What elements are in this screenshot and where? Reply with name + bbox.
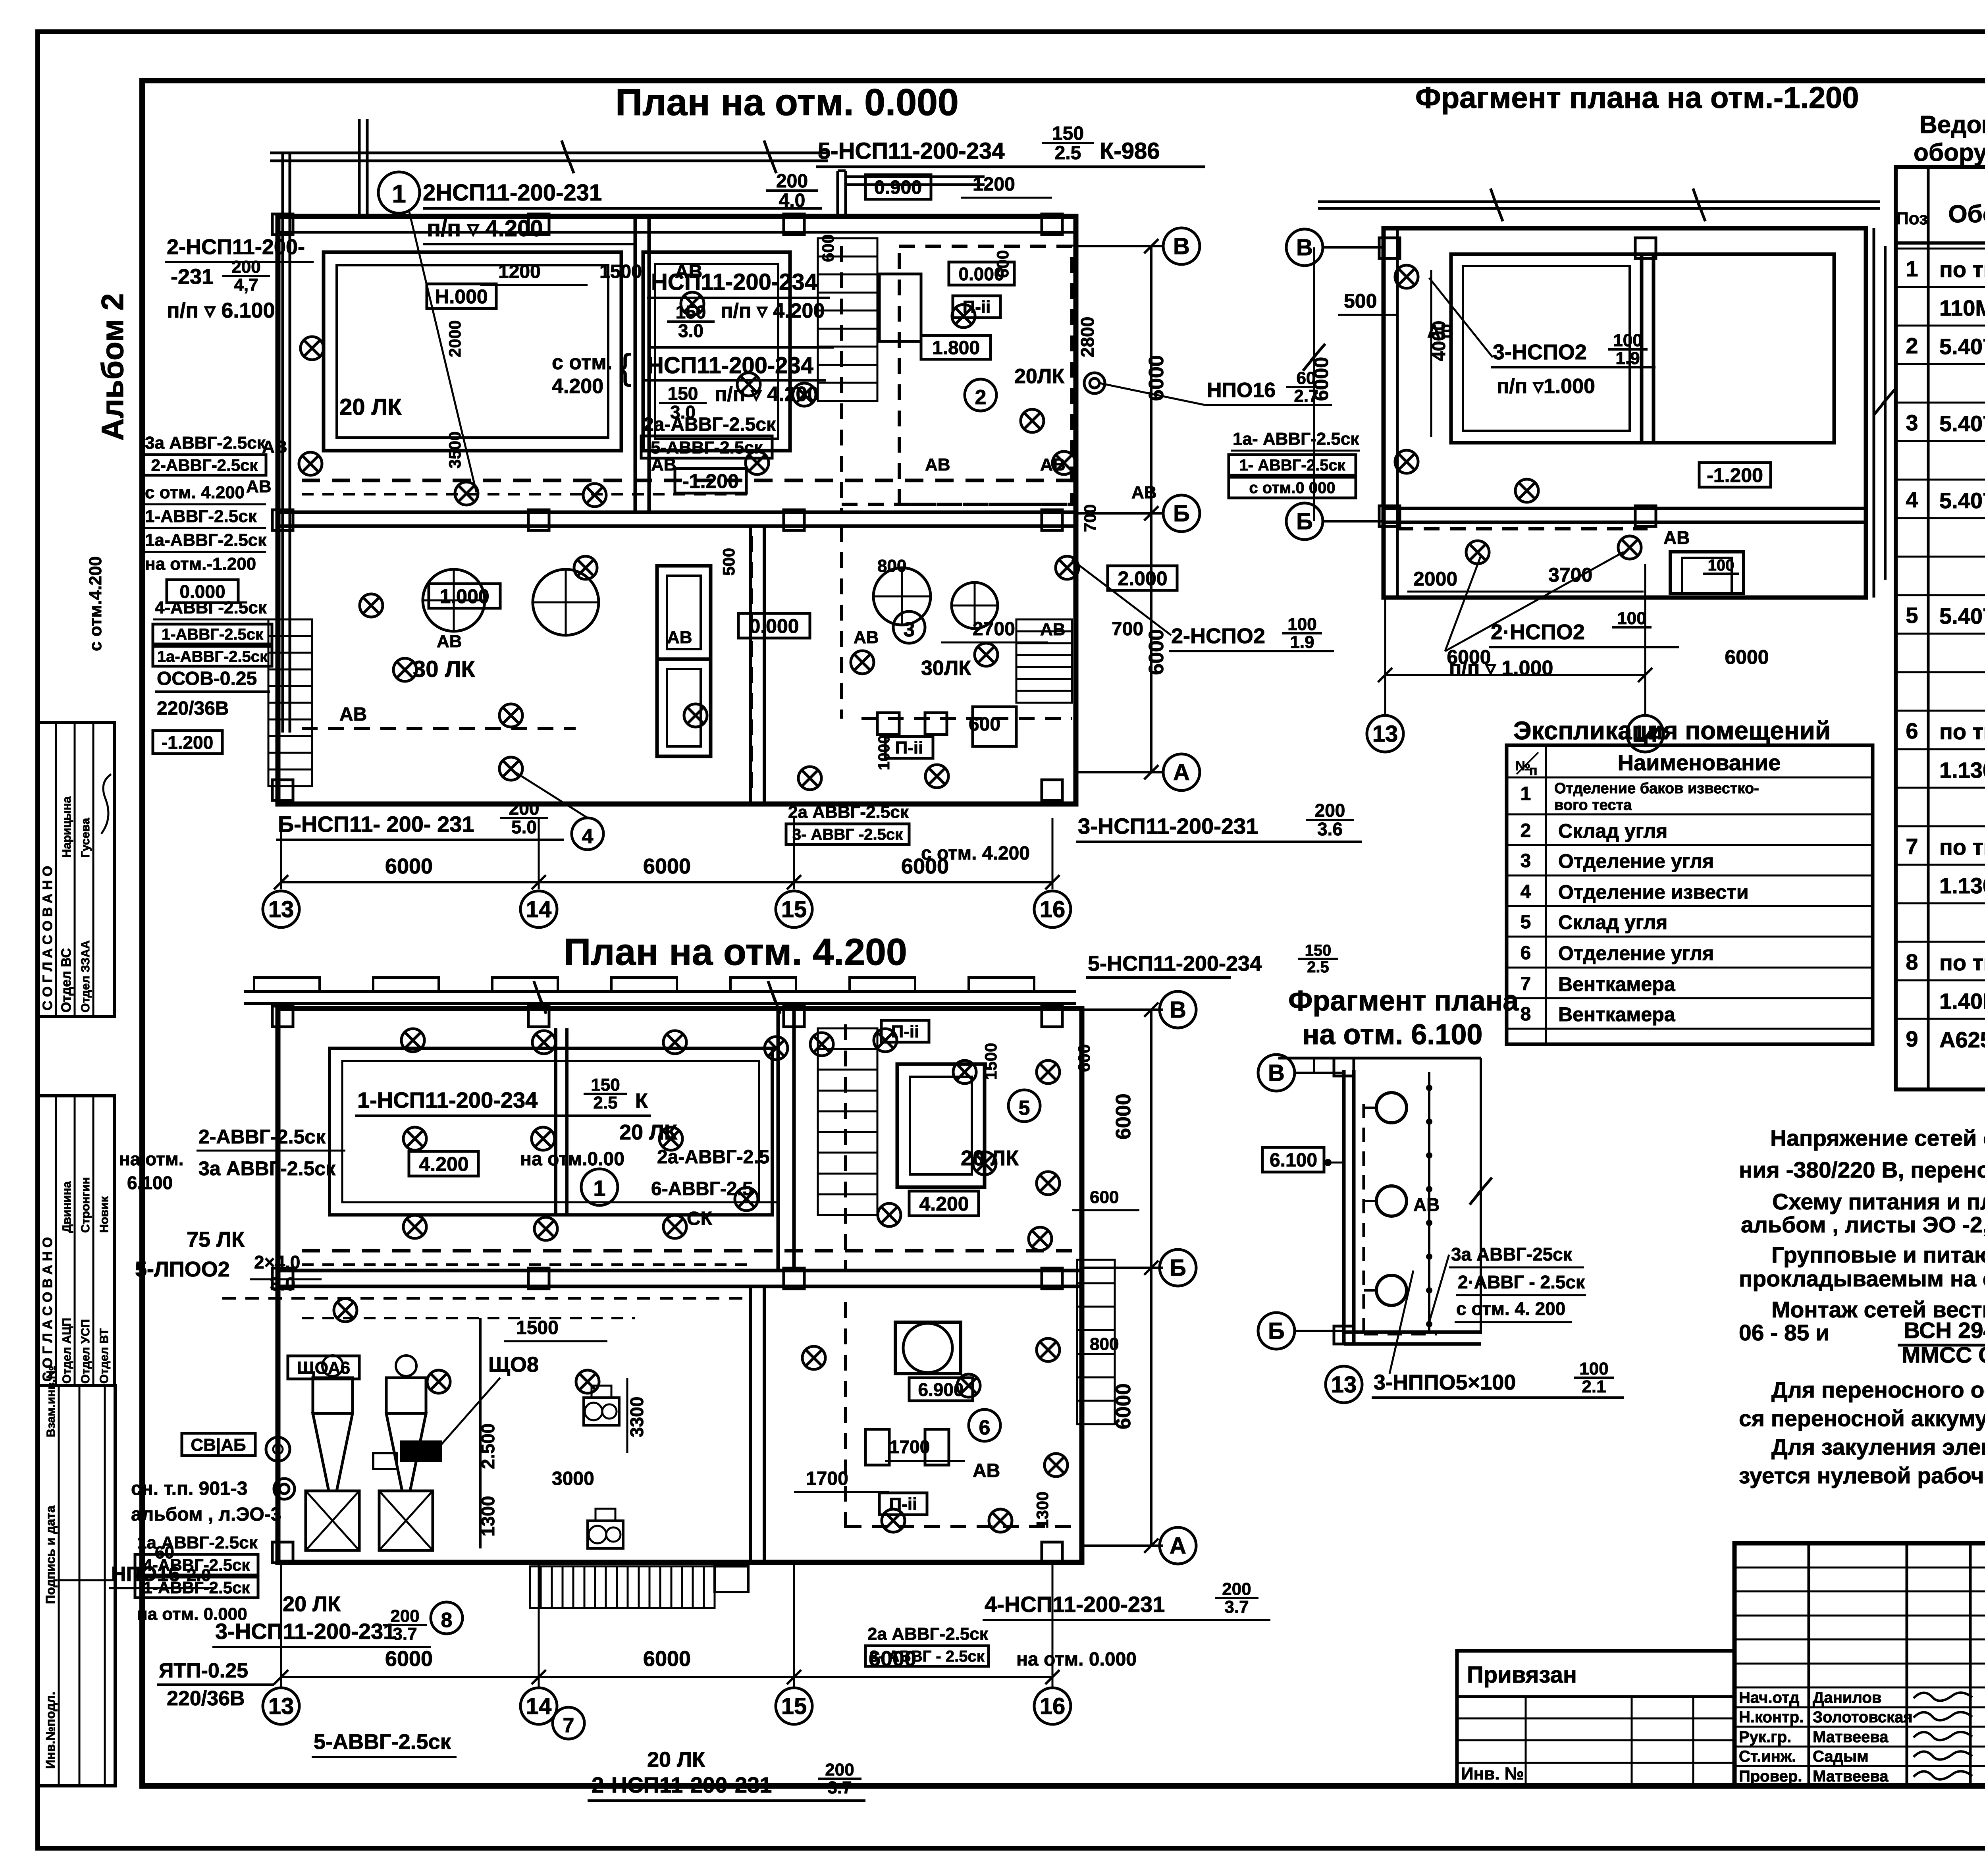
svg-text:6000: 6000 [1145, 629, 1168, 675]
svg-text:6000: 6000 [385, 1647, 433, 1671]
svg-text:2×4.0: 2×4.0 [254, 1252, 300, 1273]
svg-text:АВ: АВ [1040, 455, 1066, 474]
svg-text:200: 200 [1315, 800, 1345, 821]
svg-text:2-НСПО2: 2-НСПО2 [1171, 624, 1265, 648]
svg-text:600: 600 [1090, 1188, 1119, 1207]
svg-text:6000: 6000 [901, 854, 949, 878]
svg-text:-231: -231 [171, 265, 214, 289]
svg-text:Ведомость узлов установки элек: Ведомость узлов установки электрического [1919, 111, 1985, 139]
svg-text:6000: 6000 [1447, 646, 1491, 668]
svg-text:100: 100 [1708, 557, 1734, 574]
svg-text:3-НСП11-200-231: 3-НСП11-200-231 [1078, 814, 1258, 839]
svg-text:13: 13 [268, 1693, 294, 1719]
svg-text:200: 200 [825, 1760, 854, 1780]
svg-text:АВ: АВ [339, 704, 367, 725]
svg-text:на отм.0.00: на отм.0.00 [520, 1149, 624, 1170]
svg-text:5-ЛПОО2: 5-ЛПОО2 [135, 1257, 230, 1281]
svg-text:Обозначение: Обозначение [1948, 201, 1985, 228]
svg-text:5.407-65.60: 5.407-65.60 [1939, 488, 1985, 513]
svg-text:3000: 3000 [552, 1468, 594, 1489]
svg-text:ЩО8: ЩО8 [488, 1353, 539, 1377]
svg-text:1700: 1700 [806, 1468, 848, 1489]
svg-text:1: 1 [392, 179, 406, 208]
svg-text:800: 800 [877, 556, 906, 576]
svg-text:1300: 1300 [1033, 1492, 1052, 1529]
svg-text:с отм.4.200: с отм.4.200 [86, 556, 105, 651]
svg-text:Нарицына: Нарицына [60, 796, 73, 858]
svg-text:п/п ▿ 6.100: п/п ▿ 6.100 [167, 299, 275, 322]
svg-text:Фрагмент плана: Фрагмент плана [1288, 985, 1519, 1017]
svg-text:14: 14 [526, 1693, 552, 1719]
svg-text:В: В [1296, 235, 1313, 260]
svg-text:зуется нулевой рабочий пров: зуется нулевой рабочий провод сети. [1739, 1463, 1985, 1488]
svg-text:альбом , листы ЭО -2: альбом , листы ЭО -2,3 [1741, 1212, 1985, 1238]
svg-text:сн. т.п. 901-3: сн. т.п. 901-3 [131, 1478, 247, 1499]
svg-text:2.5: 2.5 [593, 1093, 617, 1112]
svg-text:1.130МЧ: 1.130МЧ [1939, 873, 1985, 898]
svg-text:на отм. 6.100: на отм. 6.100 [1302, 1019, 1482, 1051]
svg-text:2а АВВГ-2.5ск: 2а АВВГ-2.5ск [788, 802, 909, 822]
svg-text:Отдел ВТ: Отдел ВТ [98, 1328, 111, 1384]
svg-text:1200: 1200 [498, 261, 541, 282]
svg-text:7: 7 [563, 1714, 574, 1737]
svg-text:Отдел АЦП: Отдел АЦП [60, 1318, 73, 1384]
svg-text:5-НСП11-200-234: 5-НСП11-200-234 [818, 138, 1005, 164]
svg-text:3700: 3700 [1548, 564, 1592, 586]
svg-text:6: 6 [979, 1416, 991, 1439]
svg-text:6.100: 6.100 [1270, 1150, 1317, 1171]
svg-text:ся переносной аккумуляторный: ся переносной аккумуляторный светильник. [1739, 1406, 1985, 1431]
svg-text:30 ЛК: 30 ЛК [413, 656, 475, 682]
svg-text:2а-АВВГ-2.5ск: 2а-АВВГ-2.5ск [643, 414, 776, 435]
svg-text:П-іі: П-іі [895, 738, 923, 758]
svg-text:6000: 6000 [643, 1647, 691, 1671]
svg-text:Привязан: Привязан [1467, 1662, 1577, 1688]
svg-text:5.0: 5.0 [511, 817, 537, 837]
svg-text:5: 5 [1019, 1097, 1030, 1120]
svg-text:Схему питания и план питаю: Схему питания и план питающих сетей см.т… [1772, 1189, 1985, 1215]
svg-text:1500: 1500 [516, 1317, 559, 1338]
svg-text:2-АВВГ-2.5ск: 2-АВВГ-2.5ск [198, 1126, 326, 1148]
svg-text:3а АВВГ-25ск: 3а АВВГ-25ск [1451, 1244, 1573, 1265]
svg-text:7: 7 [1521, 974, 1531, 995]
svg-text:5-АВВГ-2.5ск: 5-АВВГ-2.5ск [314, 1730, 451, 1754]
svg-text:С О Г Л А С О В А Н О: С О Г Л А С О В А Н О [40, 1237, 55, 1382]
svg-text:6: 6 [1906, 718, 1918, 743]
svg-text:Для переносного освещения в: Для переносного освещения в отделении уг… [1771, 1377, 1985, 1403]
svg-text:Отдел УСП: Отдел УСП [79, 1319, 92, 1384]
svg-text:30ЛК: 30ЛК [921, 657, 971, 680]
svg-text:150: 150 [676, 302, 706, 322]
svg-text:Провер.: Провер. [1739, 1768, 1802, 1785]
svg-text:0.900: 0.900 [874, 177, 922, 198]
svg-text:2000: 2000 [1413, 568, 1457, 590]
svg-text:на отм. 0.000: на отм. 0.000 [1016, 1649, 1137, 1670]
svg-text:по типу 5.407-64.: по типу 5.407-64. [1939, 257, 1985, 282]
svg-text:5.407-55.1.80: 5.407-55.1.80 [1939, 411, 1985, 436]
svg-text:1: 1 [1906, 256, 1918, 281]
svg-text:20 ЛК: 20 ЛК [961, 1146, 1019, 1170]
svg-text:1а-АВВГ-2.5ск: 1а-АВВГ-2.5ск [145, 530, 267, 550]
svg-text:75 ЛК: 75 ЛК [187, 1228, 245, 1251]
svg-text:А625-06-00: А625-06-00 [1939, 1027, 1985, 1052]
svg-text:3: 3 [1521, 850, 1531, 871]
svg-text:3-НППО5×100: 3-НППО5×100 [1374, 1371, 1516, 1394]
svg-text:1-НСП11-200-234: 1-НСП11-200-234 [357, 1087, 538, 1112]
svg-text:6.100: 6.100 [127, 1172, 173, 1193]
svg-text:100: 100 [1287, 615, 1316, 634]
svg-text:Склад угля: Склад угля [1558, 820, 1667, 842]
svg-text:5-АВВГ-2.5ск: 5-АВВГ-2.5ск [651, 438, 763, 457]
svg-text:3500: 3500 [445, 432, 464, 469]
svg-text:1: 1 [593, 1176, 605, 1201]
svg-text:4,7: 4,7 [234, 275, 258, 295]
svg-text:1: 1 [1521, 783, 1531, 804]
svg-text:150: 150 [591, 1075, 620, 1095]
svg-text:Н.000: Н.000 [435, 285, 488, 308]
svg-text:Б: Б [1170, 1255, 1186, 1281]
svg-text:НПО16: НПО16 [111, 1563, 180, 1586]
svg-text:Венткамера: Венткамера [1558, 1003, 1676, 1026]
svg-text:3- АВВГ -2.5ск: 3- АВВГ -2.5ск [792, 826, 903, 843]
svg-text:Б: Б [1296, 509, 1313, 534]
svg-text:НСП11-200-234: НСП11-200-234 [647, 353, 813, 378]
svg-text:Ст.инж.: Ст.инж. [1739, 1748, 1796, 1765]
svg-text:3а АВВГ-2.5ск: 3а АВВГ-2.5ск [198, 1157, 336, 1180]
svg-text:6000: 6000 [385, 854, 433, 878]
svg-text:13: 13 [268, 897, 294, 922]
svg-text:1000: 1000 [875, 735, 893, 770]
svg-text:600: 600 [819, 234, 837, 262]
svg-text:200: 200 [776, 171, 808, 192]
svg-text:Отдел ЗЗАА: Отдел ЗЗАА [79, 940, 92, 1012]
svg-text:2.000: 2.000 [1118, 567, 1167, 590]
svg-text:2.5: 2.5 [1307, 958, 1329, 976]
svg-text:ЯТП-0.25: ЯТП-0.25 [159, 1659, 248, 1682]
svg-text:700: 700 [1112, 619, 1143, 640]
svg-text:2: 2 [1521, 820, 1531, 841]
svg-text:2000: 2000 [445, 320, 464, 357]
svg-text:4: 4 [1906, 487, 1918, 512]
svg-text:2800: 2800 [1077, 317, 1098, 357]
svg-text:Склад угля: Склад угля [1558, 911, 1667, 933]
svg-text:АВ: АВ [246, 477, 272, 496]
svg-text:Отделение угля: Отделение угля [1558, 942, 1714, 964]
svg-text:6000: 6000 [1112, 1093, 1135, 1139]
svg-text:2.1: 2.1 [1582, 1377, 1606, 1396]
svg-text:Инв.№подл.: Инв.№подл. [43, 1691, 58, 1769]
svg-text:6000: 6000 [869, 1647, 916, 1671]
svg-text:1300: 1300 [478, 1496, 498, 1537]
svg-text:2700: 2700 [973, 619, 1015, 640]
svg-text:АВ: АВ [1427, 321, 1453, 341]
svg-text:5: 5 [1521, 912, 1531, 933]
svg-text:600: 600 [969, 714, 1000, 735]
svg-text:4-НСП11-200-231: 4-НСП11-200-231 [985, 1592, 1165, 1617]
svg-text:2-НСП11-200-231: 2-НСП11-200-231 [592, 1772, 772, 1797]
svg-text:Взам.инв.№: Взам.инв.№ [44, 1366, 58, 1437]
svg-text:{: { [619, 347, 631, 387]
svg-text:3.7: 3.7 [827, 1778, 852, 1797]
svg-text:1700: 1700 [889, 1436, 930, 1457]
svg-text:АВ: АВ [651, 455, 676, 474]
svg-text:3300: 3300 [626, 1397, 647, 1437]
svg-text:-1.200: -1.200 [162, 732, 213, 753]
svg-text:6000: 6000 [1725, 646, 1769, 668]
svg-text:2-АВВГ-2.5ск: 2-АВВГ-2.5ск [151, 456, 258, 474]
svg-text:8: 8 [1521, 1004, 1531, 1025]
svg-text:с отм. 4.200: с отм. 4.200 [145, 483, 245, 502]
svg-text:В: В [1170, 997, 1186, 1023]
svg-text:20ЛК: 20ЛК [1014, 365, 1064, 388]
svg-text:-1.200: -1.200 [1707, 464, 1763, 486]
svg-text:НПО16: НПО16 [1207, 379, 1276, 402]
svg-text:№: № [1515, 758, 1530, 773]
svg-text:В: В [1173, 233, 1190, 259]
svg-text:3: 3 [904, 618, 915, 641]
svg-text:П-іі: П-іі [891, 1022, 919, 1041]
svg-text:3.6: 3.6 [1317, 819, 1343, 839]
svg-text:Б: Б [1268, 1318, 1285, 1344]
svg-text:ЩОА6: ЩОА6 [297, 1358, 350, 1378]
svg-text:20 ЛК: 20 ЛК [339, 394, 402, 420]
svg-text:4.200: 4.200 [419, 1153, 468, 1175]
svg-text:5: 5 [1906, 603, 1918, 628]
svg-text:1.800: 1.800 [932, 337, 980, 359]
svg-text:5.407-77.1.320МЧ: 5.407-77.1.320МЧ [1939, 334, 1985, 359]
svg-text:15: 15 [781, 1693, 807, 1719]
svg-text:16: 16 [1040, 897, 1066, 922]
svg-text:оборудования на плане распо: оборудования на плане расположения [1914, 139, 1985, 166]
svg-text:АВ: АВ [1413, 1194, 1440, 1215]
svg-text:Матвеева: Матвеева [1813, 1728, 1889, 1746]
svg-text:В: В [1268, 1060, 1285, 1086]
svg-text:1.000: 1.000 [439, 585, 489, 607]
svg-text:3.7: 3.7 [393, 1624, 417, 1644]
svg-text:Б-НСП11- 200- 231: Б-НСП11- 200- 231 [278, 812, 474, 837]
svg-text:Для закуления элементов эле: Для закуления элементов электрооборудова… [1771, 1434, 1985, 1460]
svg-text:1-АВВГ-2.5ск: 1-АВВГ-2.5ск [162, 626, 264, 643]
svg-text:3: 3 [1906, 410, 1918, 435]
svg-text:прокладываемым на скобах по: прокладываемым на скобах по стенам и пер… [1739, 1266, 1985, 1292]
svg-text:1- АВВГ-2.5ск: 1- АВВГ-2.5ск [1239, 457, 1345, 474]
svg-text:Групповые и питающие сети вы: Групповые и питающие сети выполняются ка… [1771, 1242, 1985, 1268]
svg-text:Поз: Поз [1896, 209, 1928, 228]
svg-text:200: 200 [1222, 1579, 1251, 1599]
svg-text:Наименование: Наименование [1618, 750, 1781, 775]
svg-text:1500: 1500 [981, 1043, 1000, 1080]
svg-text:п/п ▿1.000: п/п ▿1.000 [1497, 375, 1595, 398]
svg-text:Отделение угля: Отделение угля [1558, 850, 1714, 872]
svg-text:СВ|АБ: СВ|АБ [191, 1435, 246, 1455]
svg-text:8: 8 [1906, 949, 1918, 974]
svg-text:100: 100 [1613, 331, 1642, 350]
svg-text:2.500: 2.500 [478, 1423, 498, 1469]
svg-text:150: 150 [1305, 942, 1332, 959]
svg-text:Данилов: Данилов [1813, 1689, 1881, 1706]
svg-text:Фрагмент плана на отм.-1.200: Фрагмент плана на отм.-1.200 [1415, 81, 1859, 115]
svg-text:П-іі: П-іі [963, 297, 991, 317]
svg-text:1500: 1500 [599, 261, 642, 282]
svg-text:6: 6 [1521, 943, 1531, 964]
svg-text:с отм. 4. 200: с отм. 4. 200 [1456, 1298, 1565, 1319]
svg-text:3.0: 3.0 [270, 1274, 295, 1294]
svg-text:1а- АВВГ-2.5ск: 1а- АВВГ-2.5ск [1233, 429, 1359, 449]
svg-text:План на отм. 0.000: План на отм. 0.000 [615, 81, 959, 123]
svg-text:2: 2 [1906, 333, 1918, 358]
svg-text:-1.200: -1.200 [682, 470, 739, 492]
svg-text:3-НСП11-200-231: 3-НСП11-200-231 [215, 1619, 395, 1644]
svg-text:4: 4 [1521, 881, 1531, 902]
svg-text:Н.контр.: Н.контр. [1739, 1708, 1804, 1726]
svg-text:Двинина: Двинина [60, 1181, 73, 1233]
svg-text:15: 15 [781, 897, 807, 922]
svg-text:ОСОВ-0.25: ОСОВ-0.25 [157, 668, 257, 689]
svg-text:200: 200 [509, 798, 540, 819]
svg-text:150: 150 [668, 383, 698, 404]
svg-text:с отм.0 000: с отм.0 000 [1249, 479, 1335, 497]
svg-text:п/п ▿ 4.200: п/п ▿ 4.200 [721, 299, 825, 322]
svg-text:9: 9 [1906, 1026, 1918, 1051]
svg-text:Стронгин: Стронгин [79, 1177, 92, 1233]
svg-text:1-АВВГ-2.5ск: 1-АВВГ-2.5ск [145, 507, 257, 526]
svg-text:2а АВВГ-2.5ск: 2а АВВГ-2.5ск [867, 1624, 989, 1644]
svg-text:5-НСП11-200-234: 5-НСП11-200-234 [1088, 952, 1262, 976]
svg-text:Венткамера: Венткамера [1558, 973, 1676, 995]
svg-text:Экспликация помещений: Экспликация помещений [1513, 716, 1831, 745]
svg-text:700: 700 [1081, 504, 1099, 532]
svg-text:3.0: 3.0 [678, 320, 703, 341]
svg-text:АВ: АВ [973, 1460, 1000, 1481]
svg-text:2.0: 2.0 [187, 1566, 211, 1585]
svg-text:АВ: АВ [1040, 620, 1066, 639]
svg-text:600: 600 [993, 250, 1012, 278]
svg-text:Отдел ВС: Отдел ВС [59, 948, 74, 1012]
svg-text:14: 14 [1632, 721, 1658, 747]
svg-text:500: 500 [1344, 290, 1377, 312]
svg-text:АВ: АВ [854, 628, 879, 647]
svg-text:АВ: АВ [262, 437, 287, 457]
svg-text:20 ЛК: 20 ЛК [647, 1748, 705, 1772]
svg-text:2: 2 [975, 386, 987, 409]
svg-text:АВ: АВ [437, 632, 462, 651]
svg-text:1.9: 1.9 [1290, 632, 1314, 652]
svg-text:1.130МЧ: 1.130МЧ [1939, 758, 1985, 783]
svg-text:ВСН 294- 72: ВСН 294- 72 [1904, 1318, 1985, 1343]
svg-text:5.407-91.1.190МЧ: 5.407-91.1.190МЧ [1939, 603, 1985, 629]
svg-text:по типу 5.407-91: по типу 5.407-91 [1939, 950, 1985, 975]
svg-text:200: 200 [231, 257, 260, 277]
svg-text:Рук.гр.: Рук.гр. [1739, 1728, 1791, 1746]
svg-text:220/36В: 220/36В [157, 698, 229, 719]
svg-text:с отм.: с отм. [552, 351, 612, 374]
svg-text:АВ: АВ [667, 628, 692, 647]
svg-text:по типу 5.407-91: по типу 5.407-91 [1939, 719, 1985, 744]
svg-text:06 - 85 и: 06 - 85 и [1739, 1320, 1829, 1346]
svg-text:4.200: 4.200 [552, 375, 603, 398]
svg-text:2а-АВВГ-2.5: 2а-АВВГ-2.5 [657, 1147, 769, 1168]
svg-text:вого теста: вого теста [1554, 797, 1632, 814]
svg-text:С О Г Л А С О В А Н О: С О Г Л А С О В А Н О [40, 866, 55, 1010]
svg-text:на отм.-1.200: на отм.-1.200 [145, 554, 256, 574]
svg-text:п/п ▿ 4.200: п/п ▿ 4.200 [427, 216, 543, 241]
svg-text:К-986: К-986 [1100, 138, 1160, 164]
svg-text:Золотовская: Золотовская [1813, 1708, 1913, 1726]
svg-text:1.9: 1.9 [1615, 349, 1640, 368]
svg-text:Отделение извести: Отделение извести [1558, 881, 1749, 903]
svg-text:ния -380/220 В, переносного-: ния -380/220 В, переносного- 36В [1739, 1157, 1985, 1183]
svg-text:100: 100 [1579, 1359, 1608, 1379]
svg-text:2-НСП11-200-: 2-НСП11-200- [167, 235, 305, 259]
svg-text:Нач.отд: Нач.отд [1739, 1689, 1799, 1706]
svg-text:13: 13 [1372, 721, 1398, 747]
svg-text:альбом , л.ЭО-3: альбом , л.ЭО-3 [131, 1504, 281, 1525]
svg-text:200: 200 [390, 1606, 419, 1626]
svg-text:АВ: АВ [1663, 527, 1690, 548]
svg-text:13: 13 [1331, 1372, 1357, 1398]
svg-text:Напряжение сетей общего рабоче: Напряжение сетей общего рабочего и авари… [1770, 1126, 1985, 1151]
svg-text:п/п ▿ 4.200: п/п ▿ 4.200 [715, 383, 819, 406]
svg-text:План на отм. 4.200: План на отм. 4.200 [564, 931, 907, 973]
svg-text:Садым: Садым [1813, 1748, 1869, 1765]
svg-text:П-іі: П-іі [889, 1494, 917, 1514]
svg-text:2·НСПО2: 2·НСПО2 [1491, 620, 1585, 644]
svg-text:6-АВВГ-2.5: 6-АВВГ-2.5 [651, 1178, 753, 1199]
svg-text:60: 60 [155, 1543, 174, 1562]
svg-text:2·АВВГ - 2.5ск: 2·АВВГ - 2.5ск [1458, 1272, 1585, 1292]
svg-text:2.5: 2.5 [1055, 143, 1081, 164]
svg-text:Матвеева: Матвеева [1813, 1768, 1889, 1785]
svg-text:на отм.: на отм. [119, 1149, 183, 1169]
svg-text:4-АВВГ-2.5ск: 4-АВВГ-2.5ск [155, 598, 267, 617]
svg-text:100: 100 [1617, 609, 1646, 628]
svg-text:8: 8 [441, 1609, 453, 1632]
svg-text:Гусева: Гусева [79, 818, 92, 858]
svg-text:4: 4 [582, 825, 594, 848]
svg-text:4.200: 4.200 [919, 1193, 969, 1215]
svg-text:20 ЛК: 20 ЛК [283, 1592, 341, 1616]
svg-text:1а-АВВГ-2.5ск: 1а-АВВГ-2.5ск [157, 648, 268, 665]
svg-text:Отделение баков известко-: Отделение баков известко- [1554, 780, 1759, 797]
svg-text:А: А [1170, 1533, 1186, 1559]
svg-text:500: 500 [719, 548, 738, 576]
svg-text:3.7: 3.7 [1224, 1597, 1249, 1617]
svg-text:3а АВВГ-2.5ск: 3а АВВГ-2.5ск [145, 433, 266, 453]
svg-text:14: 14 [526, 897, 552, 922]
svg-text:СК: СК [687, 1208, 713, 1229]
svg-text:К: К [635, 1089, 648, 1112]
svg-text:600: 600 [1075, 1044, 1093, 1072]
svg-text:А: А [1173, 760, 1190, 785]
svg-text:1.40МЧ: 1.40МЧ [1939, 989, 1985, 1014]
svg-text:по типу 5.407-91: по типу 5.407-91 [1939, 835, 1985, 860]
svg-text:20 ЛК: 20 ЛК [619, 1120, 678, 1144]
svg-text:2НСП11-200-231: 2НСП11-200-231 [423, 180, 602, 206]
svg-text:3-НСПО2: 3-НСПО2 [1493, 340, 1587, 364]
svg-text:АВ: АВ [675, 261, 702, 282]
svg-text:110МЧ-02: 110МЧ-02 [1939, 295, 1985, 320]
svg-text:АВ: АВ [925, 455, 950, 474]
svg-text:150: 150 [1052, 123, 1084, 144]
svg-text:6000: 6000 [643, 854, 691, 878]
svg-text:Инв. №: Инв. № [1461, 1764, 1524, 1783]
svg-text:Альбом 2: Альбом 2 [95, 293, 130, 441]
svg-text:7: 7 [1906, 834, 1918, 859]
svg-text:1200: 1200 [973, 174, 1015, 195]
svg-text:Новик: Новик [98, 1196, 111, 1233]
svg-text:0.000: 0.000 [749, 615, 799, 637]
svg-text:6.900: 6.900 [918, 1379, 964, 1400]
